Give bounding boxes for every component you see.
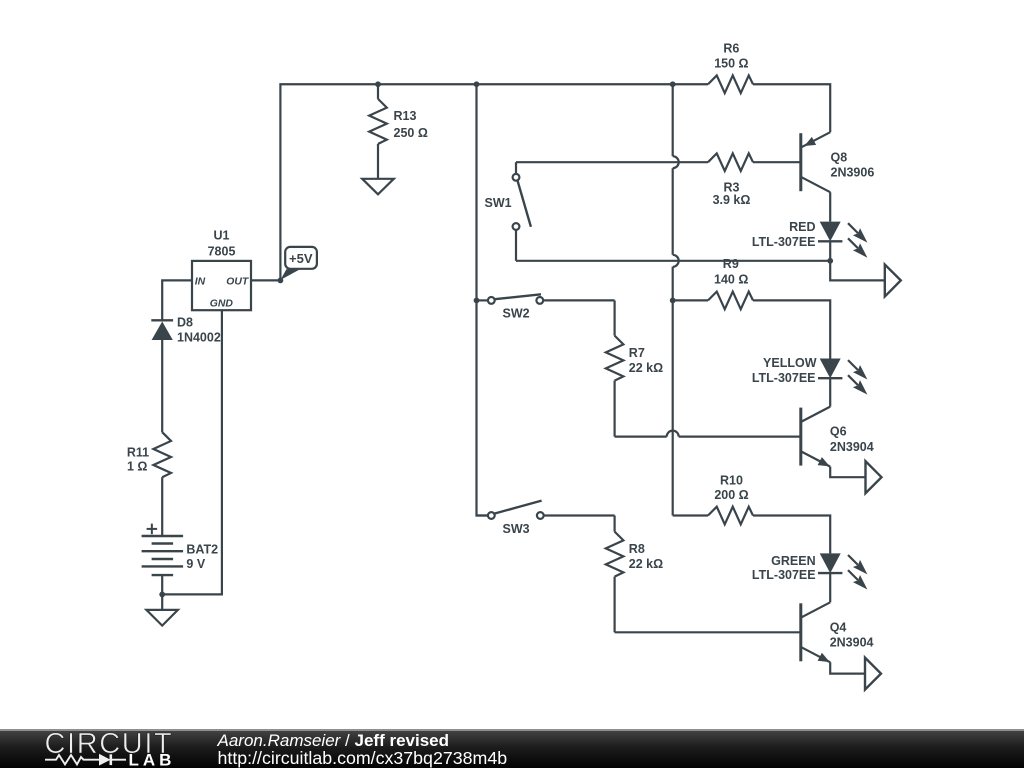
transistor Q4 (801, 602, 865, 673)
wire IN pin (162, 280, 192, 319)
LED YELLOW LTL-307EE (818, 359, 867, 407)
label R8 (629, 542, 663, 571)
label RED LED (752, 220, 816, 249)
label R9 (714, 257, 748, 286)
wire +5V top rail (280, 84, 708, 280)
label SW1 (485, 196, 512, 210)
wire RED node to output flag (830, 261, 885, 281)
switch SW3 (477, 501, 615, 519)
resistor R6 (708, 75, 753, 93)
wire R9 column vertical with hops (673, 84, 679, 515)
wire R8 to Q4 base (615, 631, 800, 633)
IC U1 7805 voltage regulator box (192, 261, 251, 310)
node junction dot OUT (278, 278, 284, 284)
node junction dot battery-gnd (159, 592, 165, 598)
transistor Q8 (801, 132, 830, 221)
output flag arrow (RED) (885, 265, 901, 297)
transistor Q6 (801, 407, 866, 478)
resistor R10 (673, 507, 831, 554)
LED RED LTL-307EE (818, 222, 867, 261)
resistor R13 (369, 84, 387, 178)
node junction dot RED cathode (827, 258, 833, 264)
node junction dot rail-R9 column (670, 81, 676, 87)
switch SW2 (477, 294, 615, 304)
svg-text:LAB: LAB (129, 750, 176, 768)
label BAT2 (186, 543, 218, 572)
label +5V (289, 251, 313, 266)
diode D8 1N4002 (151, 320, 173, 432)
label R11 (127, 445, 149, 473)
label U1 (208, 228, 236, 258)
wire gnd lead (161, 594, 163, 610)
LED GREEN LTL-307EE (818, 553, 867, 602)
label Q8 (831, 150, 875, 179)
CircuitLab logo resistor-diode symbol (45, 754, 126, 766)
ground under battery (146, 610, 178, 626)
node junction dot rail-switch column (474, 81, 480, 87)
wire R3 to Q8 base (753, 161, 800, 163)
resistor R8 (606, 516, 624, 633)
net flag +5V (280, 247, 317, 280)
wire R7 to Q6 base with hop (615, 431, 800, 437)
wire SW1 top to R3 (516, 161, 708, 163)
label R3 (713, 180, 751, 207)
wire SW2 node (474, 298, 480, 304)
output flag arrow (Q6) (866, 461, 882, 493)
footer bar (0, 729, 1024, 768)
wire battery bottom (161, 575, 163, 594)
label R7 (629, 346, 663, 375)
node junction dot rail-R13 (375, 81, 381, 87)
wire R6 to Q8 emitter (753, 84, 830, 132)
wire U1 GND pin (162, 310, 222, 594)
label YELLOW LED (752, 356, 817, 385)
wire SW1 bottom to RED cathode node (516, 260, 830, 262)
label R10 (714, 473, 748, 502)
wire switch column vertical (477, 84, 488, 515)
label Q4 (830, 620, 874, 649)
resistor R7 (606, 300, 624, 436)
battery BAT2 (142, 536, 184, 575)
label R6 (714, 42, 748, 71)
node junction dot R9 tap (670, 298, 676, 304)
label Q6 (830, 425, 874, 454)
label D8 (177, 316, 221, 345)
label SW3 (503, 522, 530, 536)
battery BAT2 plus sign (147, 524, 158, 535)
resistor R9 (673, 292, 831, 359)
label SW2 (503, 307, 530, 321)
svg-text:http://circuitlab.com/cx37bq27: http://circuitlab.com/cx37bq2738m4b (218, 748, 508, 768)
switch SW1 (513, 162, 531, 261)
resistor R11 (153, 432, 171, 536)
label R13 (394, 109, 428, 140)
wire OUT to +5V node (251, 279, 280, 281)
ground under R13 (362, 179, 394, 195)
label GREEN LED (752, 554, 816, 582)
resistor R3 (708, 153, 753, 171)
output flag arrow (Q4) (865, 658, 881, 690)
